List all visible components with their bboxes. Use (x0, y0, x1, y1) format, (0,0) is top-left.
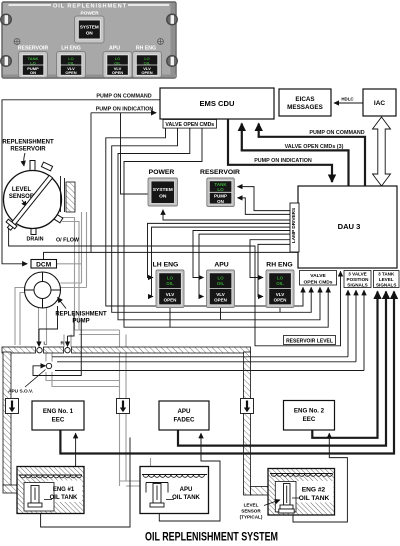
pipe: SOV lower elbow to APU riser (46, 372, 120, 387)
pipe: overflow from reservoir down (58, 218, 79, 331)
pipe: APU line into APU tank (120, 481, 144, 486)
thick wire: valve open cmds(3) up into EMS CDU (241, 124, 243, 151)
wire: valve position signal 1 (347, 290, 349, 357)
svg-text:OPEN: OPEN (112, 70, 123, 75)
level sensor APU (146, 483, 174, 508)
thick wire: APU FADEC tank level (178, 292, 386, 446)
svg-text:POWER: POWER (80, 10, 99, 16)
svg-text:EEC: EEC (52, 417, 65, 424)
wire: feed to APU SOV valve (33, 320, 81, 376)
svg-text:APU S.O.V.: APU S.O.V. (8, 389, 33, 395)
hollow double arrow IAC-DAU3 (373, 117, 391, 186)
svg-text:RH ENG: RH ENG (266, 262, 292, 269)
leader arrow to reservoir (24, 153, 25, 166)
svg-text:ON: ON (159, 193, 167, 199)
svg-text:MESSAGES: MESSAGES (287, 104, 323, 111)
svg-text:APU: APU (180, 487, 193, 493)
svg-text:OIL: OIL (276, 281, 284, 286)
pipe: pump down to L valve / SOV (39, 308, 47, 345)
lamp wire: APU lo-oil (193, 231, 290, 278)
pipe: APU line riser down (120, 330, 127, 481)
svg-text:OIL: OIL (114, 60, 121, 65)
lamp wire: RH lo-oil (250, 240, 290, 278)
panel title line right (128, 4, 169, 6)
pipe: R valve riser (64, 335, 71, 348)
ENG #2 oil tank (268, 469, 335, 516)
svg-text:POWER: POWER (149, 169, 175, 176)
svg-text:OPEN: OPEN (274, 298, 287, 303)
svg-text:ENG No. 1: ENG No. 1 (43, 408, 74, 415)
wire: system on feed to indicator (121, 113, 149, 194)
svg-text:POSITION: POSITION (347, 277, 370, 282)
LAMP DRIVERS (290, 203, 299, 252)
label LEVEL SENSOR (TYPICAL) (240, 500, 280, 520)
svg-text:APU: APU (214, 262, 228, 269)
wire: LH indicator stub (169, 308, 171, 328)
svg-text:(TYPICAL): (TYPICAL) (240, 515, 263, 520)
svg-text:SENSOR: SENSOR (241, 509, 261, 514)
svg-text:RH ENG: RH ENG (136, 46, 156, 52)
svg-text:EMS CDU: EMS CDU (199, 99, 235, 108)
service supply left elbow into ENG1 tank (3, 485, 18, 493)
svg-text:APU: APU (109, 46, 120, 52)
svg-text:OIL TANK: OIL TANK (299, 495, 330, 502)
svg-text:LO: LO (277, 275, 284, 280)
reservoir overflow stub (51, 213, 62, 223)
svg-text:SYSTEM: SYSTEM (153, 187, 173, 193)
thick wire: pump on command up into EMS CDU (258, 124, 260, 137)
svg-text:LO: LO (167, 275, 174, 280)
label box 3 VALVE POSITION SIGNALS (344, 271, 371, 288)
lamp wire: power system-on (163, 210, 290, 220)
valve L (37, 341, 47, 353)
lamp wire: reservoir pump-on (238, 198, 291, 215)
ENG No. 1 EEC (32, 401, 84, 430)
svg-text:EICAS: EICAS (295, 96, 314, 103)
svg-text:REPLENISHMENT: REPLENISHMENT (55, 312, 107, 318)
svg-text:APU: APU (177, 408, 191, 415)
indicator SYSTEM ON (148, 178, 178, 206)
svg-text:3 VALVE: 3 VALVE (348, 272, 366, 277)
wire: valve open cmd 2 (112, 128, 312, 312)
label box VALVE OPEN CMDs (under DAU3) (300, 271, 337, 286)
svg-text:FADEC: FADEC (174, 417, 196, 424)
wire: pump on indication into EMS CDU (91, 112, 156, 114)
wire: ENG1 tank sensor to EEC (75, 433, 77, 466)
APU pushbutton LO OIL / VLV OPEN (103, 52, 132, 78)
reservoir filler neck (30, 161, 35, 171)
IAC (363, 89, 396, 116)
thick wire: valve open cmds(3) run (241, 150, 349, 186)
pipe: reservoir fill line down to pump (82, 212, 87, 288)
indicator APU LO OIL / VLV OPEN (207, 270, 235, 308)
svg-text:PUMP ON INDICATION: PUMP ON INDICATION (96, 107, 154, 113)
HDLC link (334, 97, 363, 103)
svg-text:OPEN: OPEN (141, 70, 152, 75)
svg-text:OPEN: OPEN (214, 298, 227, 303)
label box VALVE OPEN CMDs (under EMS CDU) (163, 120, 217, 129)
svg-text:SIGNALS: SIGNALS (347, 283, 367, 288)
wire: valve open cmd 4 (124, 128, 328, 327)
service supply right elbow into ENG2 tank (251, 487, 269, 496)
service supply left riser (hatched) (3, 352, 11, 486)
wire: arrow into valve R (67, 336, 69, 347)
svg-text:VLV: VLV (276, 292, 284, 297)
svg-text:ON: ON (86, 31, 94, 36)
svg-text:OIL TANK: OIL TANK (172, 495, 200, 501)
svg-text:OIL REPLENISHMENT: OIL REPLENISHMENT (53, 3, 127, 9)
ENG No. 2 EEC (284, 401, 335, 431)
DAU 3 (298, 186, 397, 268)
valve APU SOV (46, 363, 51, 368)
svg-text:RESERVOIR: RESERVOIR (10, 147, 46, 153)
pipe: pump discharge to fill riser (61, 283, 87, 288)
flow arrow box APU riser (117, 399, 130, 414)
LH ENG pushbutton LO OIL / VLV OPEN (57, 52, 86, 78)
latch screw bottom-right (167, 56, 178, 67)
pipe: pump suction from service line (15, 288, 25, 346)
svg-text:LO: LO (217, 275, 224, 280)
replenishment pump (25, 272, 61, 308)
pipe: APU tank vent stub (150, 458, 152, 468)
svg-text:LO: LO (217, 187, 224, 192)
level sensor rod (6, 175, 53, 230)
wire: pump on command to EMS CDU and DCM (2, 100, 160, 264)
svg-text:LEVEL: LEVEL (244, 503, 259, 508)
svg-text:OPEN: OPEN (164, 298, 177, 303)
replenishment reservoir (4, 171, 62, 229)
svg-text:RESERVOIR: RESERVOIR (18, 46, 49, 52)
svg-text:PUMP ON COMMAND: PUMP ON COMMAND (96, 94, 151, 100)
lamp wire: RH vlv-open (258, 244, 290, 296)
wire: ENG2 tank sensor to EEC (293, 433, 347, 522)
svg-text:R: R (61, 341, 65, 347)
svg-text:VALVE OPEN CMDs (3): VALVE OPEN CMDs (3) (285, 144, 344, 150)
cross screw right (158, 39, 164, 45)
wire: valve position signal 3 (363, 290, 365, 370)
latch screw top-left (1, 14, 12, 25)
RESERVOIR pushbutton TANK LO / PUMP ON (19, 52, 48, 78)
svg-text:PUMP ON INDICATION: PUMP ON INDICATION (254, 158, 312, 164)
ENG #1 oil tank (17, 467, 84, 514)
label box 3 TANK LEVEL SIGNALS (374, 271, 400, 288)
svg-text:OPEN CMDs: OPEN CMDs (303, 279, 332, 285)
svg-text:VALVE: VALVE (310, 273, 326, 279)
indicator TANK LO / PUMP ON (207, 178, 235, 207)
svg-text:OPEN: OPEN (65, 70, 76, 75)
SYSTEM ON pushbutton (panel) (75, 16, 105, 43)
service supply band (hatched) (2, 347, 251, 353)
wire: RH indicator stub (279, 308, 281, 313)
svg-text:LH ENG: LH ENG (61, 46, 81, 52)
level sensor ENG1 (28, 486, 52, 508)
wire: feed to valve L (39, 306, 58, 329)
svg-text:SIGNALS: SIGNALS (376, 283, 396, 288)
svg-text:ON: ON (217, 199, 224, 204)
wire: valve open cmd 1 (EMS to DAU) (106, 128, 303, 306)
svg-text:DAU 3: DAU 3 (338, 222, 361, 231)
indicator RH ENG LO OIL / VLV OPEN (266, 270, 294, 308)
svg-text:OIL REPLENISHMENT SYSTEM: OIL REPLENISHMENT SYSTEM (145, 530, 278, 544)
RH ENG pushbutton LO OIL / VLV OPEN (133, 52, 162, 78)
leader arrow to pump (58, 298, 67, 309)
wire: APU indicator stub (220, 308, 222, 320)
latch screw bottom-left (1, 56, 12, 67)
pipe: SOV upper stub (46, 354, 52, 362)
svg-text:L: L (44, 341, 47, 347)
svg-text:LAMP DRIVERS: LAMP DRIVERS (291, 208, 296, 243)
reservoir right channel (61, 176, 65, 212)
svg-text:RESERVOIR LEVEL: RESERVOIR LEVEL (286, 338, 333, 344)
svg-text:ENG #1: ENG #1 (53, 487, 75, 493)
mounting plate (hatched) (66, 182, 75, 212)
thick wire: pump on indication from EMS CDU (228, 119, 332, 182)
svg-text:3 TANK: 3 TANK (378, 272, 395, 277)
lamp wire: reservoir tank-lo (238, 187, 291, 211)
svg-text:EEC: EEC (303, 416, 316, 423)
svg-text:PUMP ON COMMAND: PUMP ON COMMAND (309, 130, 364, 136)
svg-text:REPLENISHMENT: REPLENISHMENT (2, 140, 54, 146)
svg-text:OIL: OIL (144, 60, 151, 65)
wire: arrow into valve L (38, 329, 40, 347)
wire: pump on indication from DCM bus (90, 113, 92, 253)
lamp wire: LH vlv-open (152, 227, 291, 296)
svg-text:OIL: OIL (68, 60, 75, 65)
DCM (31, 260, 57, 269)
svg-text:DCM: DCM (36, 262, 52, 269)
reservoir angled stub top-right (41, 162, 52, 171)
svg-text:VLV: VLV (216, 292, 224, 297)
pipe: overflow elbow to APU line (75, 330, 120, 335)
indicator LH ENG LO OIL / VLV OPEN (156, 270, 184, 308)
wire: feed to valve R (68, 312, 75, 336)
panel title line left (9, 4, 52, 6)
svg-text:PUMP: PUMP (72, 319, 89, 325)
svg-text:SYSTEM: SYSTEM (80, 25, 99, 30)
svg-text:VLV: VLV (166, 292, 174, 297)
control panel body (2, 2, 176, 78)
label box RESERVOIR LEVEL (284, 336, 336, 345)
thick wire: pump on command EMS-DAU run (258, 137, 365, 186)
thick wire: ENG2 EEC tank level (312, 292, 377, 438)
pipe: DCM link (57, 263, 82, 265)
svg-text:LEVEL: LEVEL (379, 277, 394, 282)
wire: valve open cmd 3 (118, 128, 320, 320)
latch screw top-right (167, 14, 178, 25)
svg-text:IAC: IAC (374, 100, 386, 107)
svg-text:ON: ON (30, 70, 36, 75)
flow arrow box right riser (241, 399, 254, 414)
svg-text:RESERVOIR: RESERVOIR (200, 169, 240, 176)
wire: valve position signal 2 (355, 290, 357, 362)
svg-text:DRAIN: DRAIN (26, 237, 43, 243)
EMS CDU (160, 88, 274, 119)
service supply right riser (hatched) (244, 352, 251, 495)
leader arrow to level sensor (22, 200, 27, 207)
svg-text:LEVEL: LEVEL (12, 187, 32, 193)
svg-text:HDLC: HDLC (341, 97, 354, 102)
svg-text:O/ FLOW: O/ FLOW (56, 238, 80, 244)
cross screw left (14, 39, 20, 45)
svg-text:LH ENG: LH ENG (153, 262, 179, 269)
wire: DCM status to DAU (44, 252, 299, 259)
flow arrow box left riser (6, 399, 19, 414)
svg-text:VALVE OPEN CMDs: VALVE OPEN CMDs (165, 122, 214, 128)
svg-text:ENG No. 2: ENG No. 2 (294, 408, 325, 415)
wire: reservoir level sensor to DAU (9, 228, 341, 346)
wire: APU tank sensor to FADEC (159, 433, 220, 521)
svg-text:ENG #2: ENG #2 (302, 487, 326, 494)
thick wire: ENG1 EEC tank level (60, 292, 394, 454)
APU oil tank (140, 467, 209, 514)
svg-text:OIL: OIL (166, 281, 174, 286)
valve R (61, 341, 71, 353)
svg-text:OIL TANK: OIL TANK (50, 495, 78, 501)
svg-text:OIL: OIL (217, 281, 225, 286)
label APU S.O.V. (8, 370, 46, 395)
level sensor ENG2 (279, 484, 299, 514)
svg-text:LO: LO (30, 60, 36, 65)
wire: ENG1 tank sensor bottom run (41, 438, 130, 528)
APU FADEC (159, 401, 209, 430)
lamp wire: LH lo-oil (148, 223, 291, 277)
reservoir drain stub (31, 226, 36, 235)
lamp wire: APU vlv-open (199, 234, 290, 296)
thick arrow: pump on indication into DAU3 (331, 178, 333, 182)
EICAS MESSAGES (279, 89, 331, 116)
